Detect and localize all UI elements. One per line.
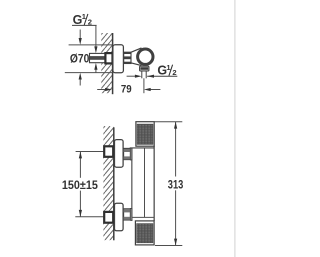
svg-text:313: 313 <box>168 178 184 192</box>
svg-text:2: 2 <box>172 68 176 77</box>
svg-text:150±15: 150±15 <box>62 180 99 192</box>
svg-text:Ø70: Ø70 <box>70 53 89 65</box>
svg-text:79: 79 <box>121 83 132 95</box>
